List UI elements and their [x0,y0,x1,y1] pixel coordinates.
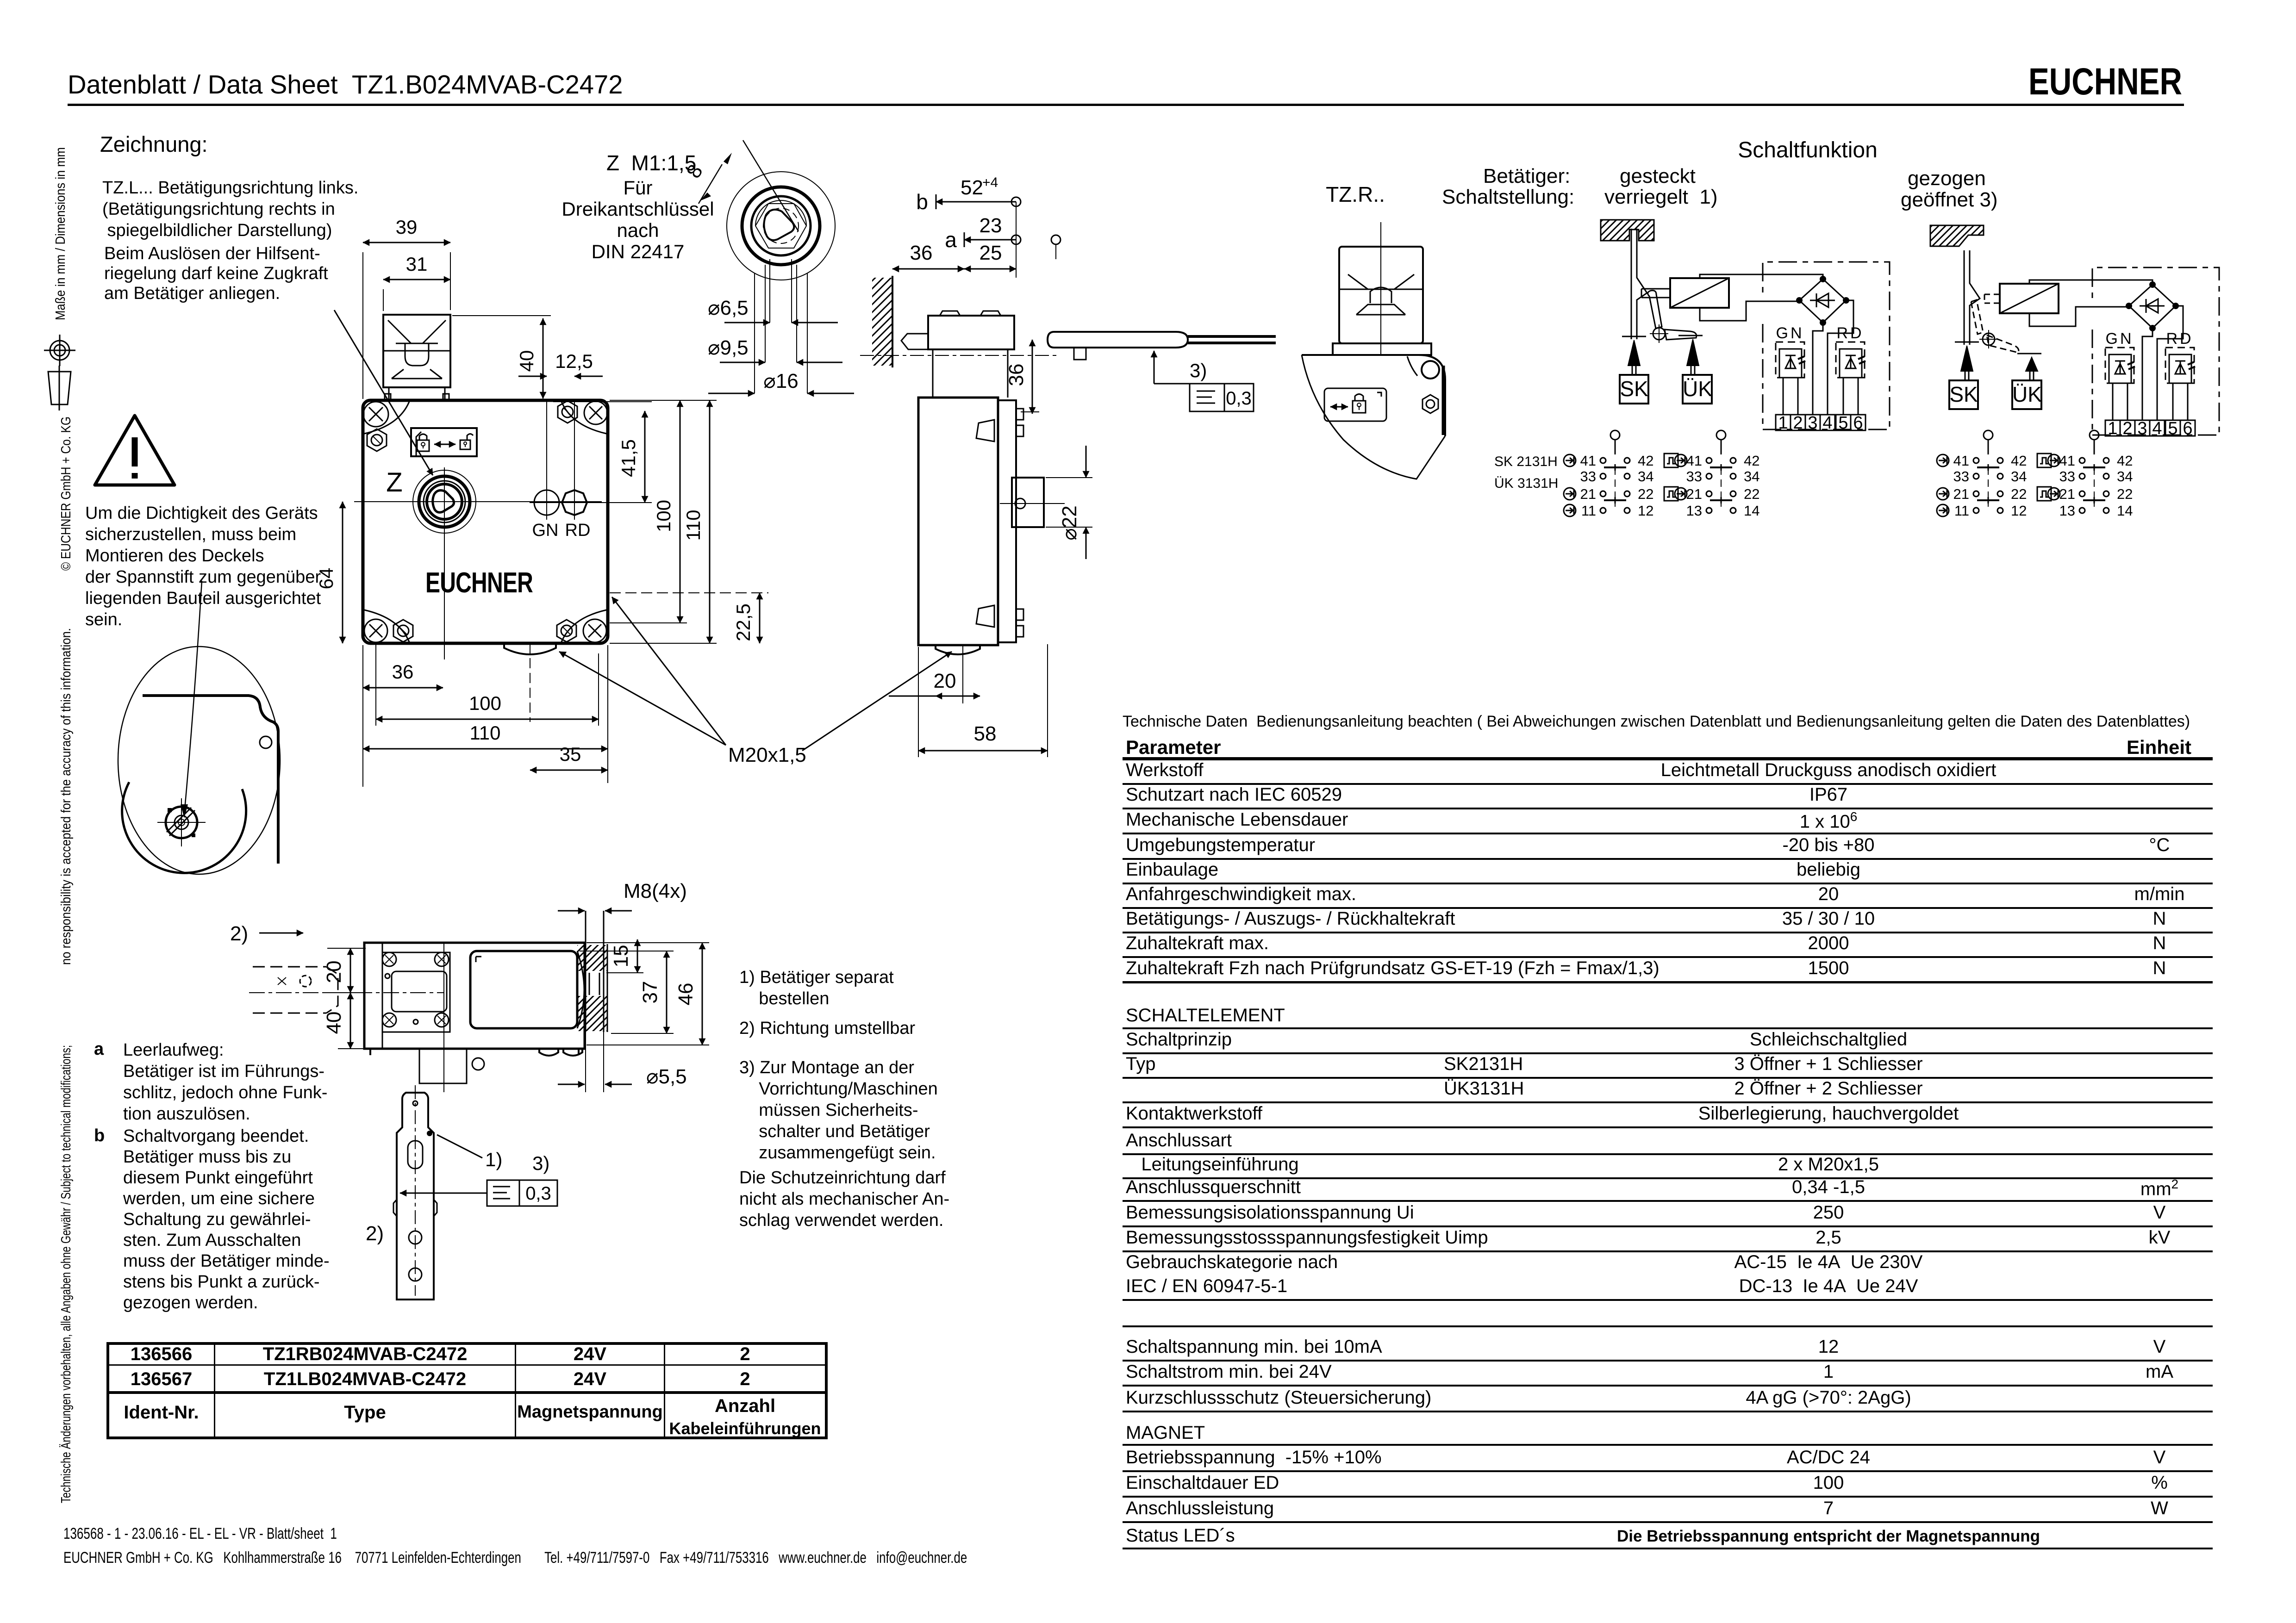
svg-text:21: 21 [1953,486,1969,502]
contact group plunger [1610,430,1620,440]
svg-text:22: 22 [2117,486,2133,502]
svg-text:64: 64 [315,568,337,590]
svg-text:100: 100 [469,692,501,714]
svg-text:3): 3) [532,1152,549,1174]
svg-text:13: 13 [2059,503,2075,519]
svg-text:41: 41 [1686,453,1702,469]
svg-text:40: 40 [323,1012,345,1034]
dimension 31 (head width) [383,279,450,280]
svg-text:1: 1 [1778,413,1788,433]
UK contact tick and arrow [1678,335,1703,336]
front view: corner screw bottom-left [364,619,387,642]
svg-text:SK 2131H: SK 2131H [1494,454,1558,469]
cover detail: plate edge [143,696,278,864]
TZ.R..: center line [1380,222,1381,355]
svg-text:42: 42 [2011,453,2027,469]
surface finish box 0,3 [487,1180,519,1206]
contact bridges [1615,467,1616,507]
svg-text:52: 52 [961,176,983,199]
svg-text:21: 21 [2059,486,2075,502]
svg-text:RD: RD [1836,324,1864,342]
dimension 22,5 (side entry) [610,592,768,593]
svg-text:ÜK: ÜK [2012,382,2042,406]
TZ.R..: corner screw hole [1422,361,1439,379]
dimension 41,5 (LED from top) [553,401,652,402]
dimension 12,5 (LED spacing) [518,376,547,377]
dimension 40 (head height) [543,318,544,398]
note a [94,1039,104,1059]
contact group plunger [1984,430,1993,440]
svg-text:5: 5 [1838,413,1848,433]
warning triangle [95,416,175,485]
cover detail: leader from note text [184,581,202,815]
top view: dashed actuator entry [253,967,338,1013]
top view: dim 15 [637,939,638,973]
EUCHNER company logo [2028,64,2185,99]
svg-text:41: 41 [2059,453,2075,469]
svg-text:5: 5 [2168,419,2177,438]
front view: hex screw bottom-left [393,620,413,642]
detail Z: dim Ø16 [708,393,755,394]
svg-text:2): 2) [230,922,248,945]
svg-text:36: 36 [392,661,414,683]
terminal strip 1-6 [2105,420,2120,436]
svg-text:34: 34 [1744,468,1759,485]
SK contact tick and arrow [1955,342,1979,343]
svg-text:15: 15 [610,945,632,968]
wire bridge bottom to terminal 3 [2142,328,2152,420]
svg-text:12: 12 [2011,503,2027,519]
enclosure dash-dot boundary [1763,262,1890,429]
svg-text:GN: GN [1776,324,1804,342]
UK box [2012,380,2041,409]
svg-text:⌀5,5: ⌀5,5 [646,1065,687,1088]
svg-text:58: 58 [974,722,997,745]
sidebar vertical copyright text [53,147,74,1503]
front view: gland centerline dashed [530,643,530,722]
svg-text:31: 31 [406,253,428,275]
front view: cylinder centerlines [410,501,602,502]
dimension 110 (bottom) [363,748,608,750]
svg-text:6: 6 [2183,419,2192,438]
svg-text:33: 33 [2059,468,2075,485]
top view: bottom ledge and glands [364,1049,585,1056]
separate actuator below [393,1093,437,1300]
svg-text:23: 23 [980,214,1002,237]
TZ.R..: padlock plate [1324,388,1386,421]
svg-text:a: a [945,228,957,252]
rectifier bridge diamond [1799,279,1846,323]
svg-text:35: 35 [560,743,581,765]
side view: dim 58 bottom [918,750,1048,752]
front view: corner screw top-left [363,402,388,427]
front view: RD LED [557,485,592,520]
top view: cover rounded rect [470,951,577,1028]
svg-text:1: 1 [2108,419,2117,438]
front view: actuator head [383,315,450,400]
front view: bottom cable gland [504,644,556,654]
svg-text:3): 3) [1190,360,1207,381]
svg-text:Schaltstellung:: Schaltstellung: [1442,186,1574,208]
side view: actuator head side [901,311,1014,398]
cover detail: outline ellipse [118,647,280,874]
detail Z: dim 8 diagonal [743,140,799,231]
cover detail: spring pin [157,798,206,846]
dimension 100 (bottom) [376,719,599,720]
contact bridges [1988,467,1989,507]
side view: dim 20 bottom [936,696,980,697]
svg-text:M20x1,5: M20x1,5 [728,744,806,766]
wire solenoid bottom to bridge left [2029,307,2129,326]
side view: housing body side [918,398,1016,645]
svg-text:GN: GN [532,521,559,540]
svg-text:11: 11 [1954,503,1969,519]
svg-text:4: 4 [2152,419,2162,438]
svg-text:14: 14 [1744,503,1759,519]
svg-text:21: 21 [1686,486,1702,502]
svg-text:SK: SK [1620,377,1648,401]
svg-text:34: 34 [1638,468,1653,485]
side view: dims 36 and 25 [892,268,964,270]
svg-text:2: 2 [1793,413,1803,433]
wire solenoid top to bridge [1700,274,1823,279]
bridge diode symbol [1816,293,1828,307]
first-angle projection symbol (target) [44,335,75,366]
svg-text:34: 34 [2117,468,2133,485]
solenoid plunger bar [1641,289,1670,298]
cover detail: small hole [260,736,272,748]
bridge diode symbol [2146,299,2158,313]
solenoid plunger bar [1984,294,2000,303]
first-angle projection symbol (cone) [48,366,71,410]
front view: lock indicator plate [411,428,477,456]
svg-text:14: 14 [2117,503,2133,519]
svg-text:2): 2) [366,1222,384,1245]
svg-text:Z M1:1,5: Z M1:1,5 [606,151,696,175]
svg-text:RD: RD [565,521,591,540]
contact bridges [1721,467,1722,507]
svg-text:33: 33 [1686,468,1702,485]
svg-text:36: 36 [1005,364,1028,386]
svg-text:Maße in mm / Dimensions in mm: Maße in mm / Dimensions in mm [53,147,68,320]
svg-text:110: 110 [682,510,704,541]
top view: dim 46 [702,943,703,1045]
top view: screw plate with 4 screws [382,952,450,1032]
terminal strip 1-6 [1776,415,1791,430]
svg-text:gezogen: gezogen [1908,167,1986,190]
notes 1) 2) 3) middle [739,967,894,1009]
svg-text:gesteckt: gesteckt [1620,165,1696,187]
svg-text:Betätiger:: Betätiger: [1483,165,1570,187]
svg-text:110: 110 [470,722,501,744]
side view: actuation axis centerline [860,355,1060,356]
svg-text:ÜK 3131H: ÜK 3131H [1494,476,1558,491]
wire bridge bottom to terminal 3 [1813,323,1823,415]
svg-text:22: 22 [1638,486,1653,502]
SK box [1949,380,1978,409]
svg-text:M8(4x): M8(4x) [624,880,687,902]
front view: housing body [363,400,608,643]
svg-text:20: 20 [934,670,956,692]
svg-text:EUCHNER: EUCHNER [425,567,533,599]
GN wires to terminals 1 2 [1783,378,1784,415]
svg-text:12: 12 [1638,503,1653,519]
contact group plunger [2090,430,2099,440]
svg-text:22: 22 [1744,486,1759,502]
wire bridge right to terminal 4 [1828,300,1853,415]
front view: hex screw bottom-right [557,620,576,642]
GN wires to terminals 1 2 [2112,383,2114,420]
svg-text:13: 13 [1686,503,1702,519]
svg-text:Dreikantschlüssel: Dreikantschlüssel [562,198,714,220]
svg-text:41: 41 [1580,453,1596,469]
dimension 39 (front top width) [362,252,363,399]
front view: triangular key cylinder [413,470,476,533]
front view: leader line from release note to cylinder [334,310,433,475]
note b [94,1126,105,1146]
svg-text:37: 37 [639,981,661,1004]
svg-text:100: 100 [653,500,674,532]
solenoid with diagonal [1670,278,1729,308]
svg-text:b: b [916,190,928,214]
top view: dim 37 [666,951,668,1033]
svg-text:40: 40 [516,350,537,372]
detail Z: outer circles [727,172,835,280]
svg-text:46: 46 [674,983,697,1006]
svg-text:34: 34 [2011,468,2027,485]
svg-text:3: 3 [2137,419,2147,438]
svg-text:verriegelt 1): verriegelt 1) [1604,186,1718,208]
SK box [1620,375,1648,404]
svg-text:geöffnet 3): geöffnet 3) [1901,188,1998,211]
svg-text:Technische Änderungen vorbehal: Technische Änderungen vorbehalten, alle … [59,1045,74,1503]
UK box [1683,375,1712,404]
dimension 64 (left side) [354,501,410,502]
SK contact tick and arrow [1622,336,1646,337]
svg-text:⌀16: ⌀16 [763,370,798,392]
actuator rod [1631,229,1647,339]
wire solenoid bottom to bridge left [1700,301,1799,321]
wire bridge right to terminal 4 [2157,306,2183,420]
dimension 100 (right side) [680,400,681,623]
RD wires to terminals 5 6 [1843,378,1844,415]
svg-text:22,5: 22,5 [732,603,754,641]
front view: corner screw top-right [584,401,607,424]
svg-text:nach: nach [617,219,659,241]
svg-text:33: 33 [1580,468,1596,485]
enclosure dash-dot boundary [2092,267,2219,435]
svg-text:39: 39 [396,216,418,238]
svg-text:DIN 22417: DIN 22417 [592,241,685,262]
svg-text:⌀9,5: ⌀9,5 [708,336,749,359]
svg-text:no responsibility is accepted: no responsibility is accepted for the ac… [59,628,74,965]
svg-text:Für: Für [624,177,653,199]
latch lever with pivot [1648,291,1662,329]
svg-text:ÜK: ÜK [1683,377,1712,401]
top view: M8 stud [586,911,604,1032]
svg-text:⌀22: ⌀22 [1058,505,1081,540]
svg-text:42: 42 [2117,453,2133,469]
svg-text:RD: RD [2166,330,2193,348]
side view: bottom cable gland [936,645,980,654]
dimension 110 (right side) [709,400,711,643]
contact bridges [2094,467,2095,507]
svg-text:GN: GN [2106,330,2134,348]
side view: separate actuator with cable [1048,332,1276,360]
TZ.R..: actuator head front [1339,247,1423,343]
svg-text:42: 42 [1638,453,1653,469]
side view: Ø22 boss [1012,478,1044,527]
top view: dim 40 left [350,993,351,1049]
side view: reference circle b [1051,235,1061,244]
side view: dim 36 vertical [1032,340,1033,414]
detail Z: diameter projection lines [769,259,770,323]
svg-text:+4: +4 [982,175,998,190]
svg-text:1): 1) [485,1149,502,1170]
svg-text:42: 42 [1744,453,1759,469]
svg-text:TZ.R..: TZ.R.. [1326,182,1385,206]
svg-text:Z: Z [386,467,402,497]
svg-text:22: 22 [2011,486,2027,502]
svg-text:33: 33 [1953,468,1969,485]
svg-text:41: 41 [1953,453,1969,469]
svg-text:41,5: 41,5 [618,439,639,477]
front view: corner casting lines [364,402,606,642]
wire solenoid top to bridge [2029,280,2152,285]
top view: centerline [249,992,444,993]
svg-text:⌀6,5: ⌀6,5 [708,297,749,319]
TZ.R..: head flange [1333,343,1431,355]
actuator rod [1964,250,1980,345]
svg-text:12,5: 12,5 [555,350,593,372]
svg-text:2: 2 [2122,419,2132,438]
solenoid with diagonal [2000,284,2059,313]
svg-text:Schaltfunktion: Schaltfunktion [1738,138,1878,162]
front view: hex screw top-right [558,401,577,423]
top view: dim 20 left [350,948,351,993]
svg-text:21: 21 [1580,486,1596,502]
svg-text:6: 6 [1853,413,1863,433]
svg-text:36: 36 [910,242,933,264]
svg-text:11: 11 [1581,503,1596,519]
UK contact tick and arrow [2017,353,2041,354]
svg-text:4: 4 [1822,413,1832,433]
cover detail: inner circle [122,782,246,873]
TZ.R..: hex screw [1423,395,1438,413]
contact group plunger [1716,430,1726,440]
front view: hex screw below top-left [367,429,387,451]
svg-text:0,3: 0,3 [1226,388,1252,409]
svg-text:25: 25 [980,242,1002,264]
front view: GN LED [530,485,564,520]
side view: plate screws [1016,409,1023,637]
svg-text:0,3: 0,3 [525,1183,551,1204]
RD wires to terminals 5 6 [2172,383,2174,420]
svg-text:SK: SK [1949,382,1978,406]
svg-text:© EUCHNER GmbH + Co. KG: © EUCHNER GmbH + Co. KG [59,417,74,571]
dimension 35 (bottom gland) [530,770,608,771]
svg-text:3: 3 [1808,413,1817,433]
front view: corner screw bottom-right [583,619,606,642]
latch lever with pivot [1971,300,1983,334]
TZ.R..: housing partial outline [1302,355,1445,479]
side view: clamp blocks [976,420,994,627]
top view: connector block below [419,1049,484,1083]
detail Z: dim Ø9,5 [720,362,765,363]
dimension 36 (bottom) [363,687,443,689]
svg-text:20: 20 [323,961,345,983]
front view: vertical centerlines above LEDs [546,400,547,485]
detail Z: dim Ø6,5 [724,322,770,323]
rectifier bridge diamond [2129,285,2176,328]
top view: housing outline [364,943,585,1049]
